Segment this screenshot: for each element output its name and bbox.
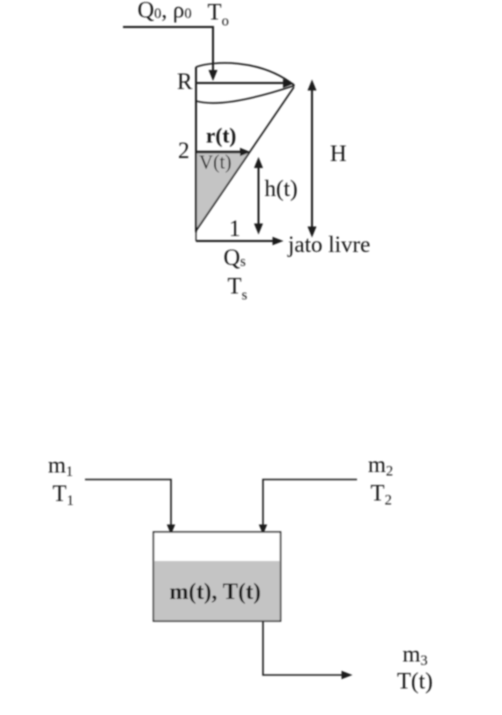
svg-text:h(t): h(t) bbox=[265, 176, 298, 201]
wire: inlet vertical with arrowhead bbox=[209, 27, 218, 81]
svg-text:V(t): V(t) bbox=[199, 153, 232, 174]
svg-text:Ts: Ts bbox=[228, 274, 248, 304]
cone bottom rim arc bbox=[196, 86, 295, 104]
svg-text:2: 2 bbox=[178, 138, 190, 163]
svg-text:R: R bbox=[177, 69, 193, 94]
svg-text:jato livre: jato livre bbox=[287, 232, 370, 257]
wire: inlet horizontal bbox=[123, 26, 214, 28]
svg-text:Qs: Qs bbox=[224, 245, 247, 270]
tank liquid fill bbox=[154, 561, 279, 620]
svg-text:1: 1 bbox=[229, 216, 241, 241]
liquid triangle V(t) bbox=[196, 152, 250, 230]
svg-text:m2: m2 bbox=[368, 452, 393, 480]
svg-text:To: To bbox=[208, 0, 229, 30]
outlet jet arrow bbox=[196, 237, 284, 245]
svg-text:r(t): r(t) bbox=[206, 124, 236, 148]
tank body bbox=[154, 532, 281, 621]
r(t) radius arrow bbox=[197, 148, 251, 156]
cone slant side bbox=[197, 87, 295, 230]
cone top rim arc bbox=[196, 63, 295, 86]
svg-text:H: H bbox=[330, 141, 347, 166]
cone left edge bbox=[195, 67, 197, 232]
cone edge lower thin stub bbox=[195, 232, 197, 241]
svg-text:m(t), T(t): m(t), T(t) bbox=[169, 579, 261, 604]
svg-text:T2: T2 bbox=[371, 480, 392, 508]
m2 inlet pipe with arrowhead bbox=[259, 480, 357, 535]
svg-text:m3: m3 bbox=[403, 642, 428, 670]
svg-text:T(t): T(t) bbox=[397, 669, 433, 694]
H dimension arrow bbox=[308, 80, 317, 238]
R radius arrow bbox=[197, 79, 294, 88]
m1 inlet pipe with arrowhead bbox=[85, 480, 175, 535]
outflow pipe with arrowhead bbox=[263, 621, 353, 679]
svg-text:T1: T1 bbox=[53, 481, 74, 509]
svg-text:m1: m1 bbox=[48, 452, 73, 480]
svg-text:Q0, ρ0: Q0, ρ0 bbox=[138, 0, 192, 23]
h(t) dimension arrow bbox=[254, 157, 263, 235]
